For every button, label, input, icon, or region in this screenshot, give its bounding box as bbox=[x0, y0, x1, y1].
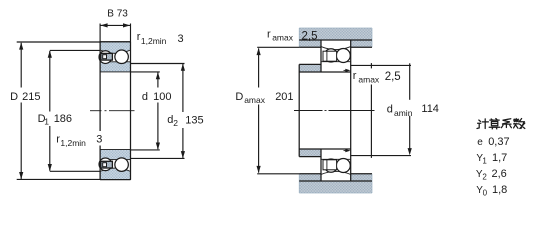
svg-text:r: r bbox=[353, 70, 357, 82]
svg-text:1: 1 bbox=[44, 117, 49, 127]
svg-text:100: 100 bbox=[153, 91, 171, 103]
svg-text:2,5: 2,5 bbox=[302, 30, 318, 42]
svg-text:3: 3 bbox=[96, 133, 102, 145]
svg-text:B: B bbox=[107, 8, 114, 19]
svg-text:amax: amax bbox=[358, 74, 380, 84]
svg-text:2: 2 bbox=[482, 172, 487, 181]
svg-text:1,7: 1,7 bbox=[492, 152, 507, 164]
svg-text:114: 114 bbox=[421, 103, 439, 115]
svg-text:0,37: 0,37 bbox=[488, 136, 509, 148]
svg-text:amax: amax bbox=[272, 33, 294, 43]
svg-text:135: 135 bbox=[185, 114, 203, 126]
svg-text:r: r bbox=[267, 29, 271, 41]
svg-text:215: 215 bbox=[22, 91, 40, 103]
svg-text:1: 1 bbox=[482, 157, 487, 166]
svg-text:1,2min: 1,2min bbox=[60, 138, 86, 148]
svg-text:201: 201 bbox=[275, 91, 293, 103]
svg-text:0: 0 bbox=[483, 189, 488, 198]
svg-text:2: 2 bbox=[173, 118, 178, 128]
svg-text:d: d bbox=[387, 103, 393, 115]
svg-text:186: 186 bbox=[54, 113, 72, 125]
svg-text:amax: amax bbox=[244, 95, 266, 105]
svg-text:e: e bbox=[477, 137, 483, 148]
svg-text:d: d bbox=[142, 91, 148, 103]
svg-text:1,8: 1,8 bbox=[492, 184, 507, 196]
svg-text:D: D bbox=[10, 91, 18, 103]
svg-text:D: D bbox=[235, 91, 243, 103]
svg-text:73: 73 bbox=[117, 8, 129, 19]
svg-text:amin: amin bbox=[394, 108, 413, 118]
svg-text:2,5: 2,5 bbox=[385, 71, 401, 83]
svg-text:2,6: 2,6 bbox=[492, 168, 507, 180]
svg-text:3: 3 bbox=[178, 33, 184, 45]
svg-text:1,2min: 1,2min bbox=[141, 36, 167, 46]
